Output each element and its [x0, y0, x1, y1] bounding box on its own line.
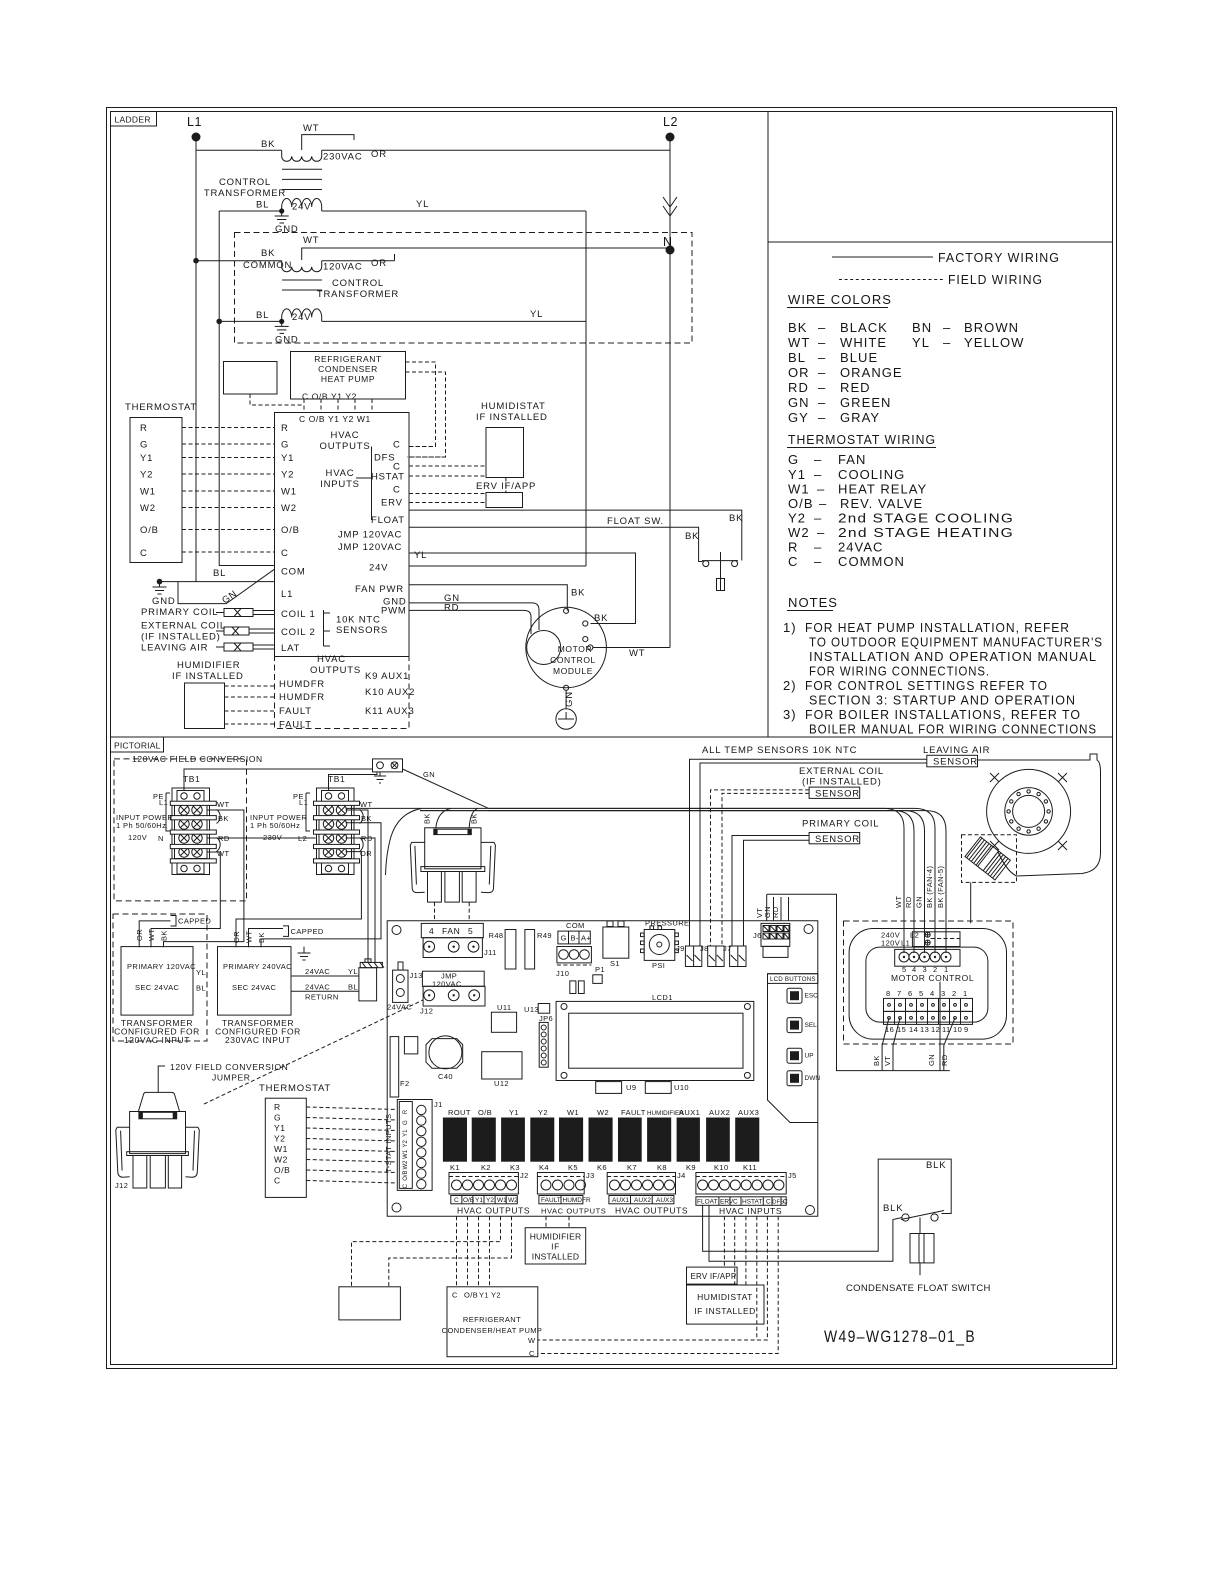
svg-text:Y2: Y2 — [274, 1134, 286, 1144]
svg-text:K7: K7 — [627, 1163, 637, 1172]
svg-text:EXTERNAL COIL: EXTERNAL COIL — [141, 621, 226, 632]
svg-text:COMMON: COMMON — [243, 260, 292, 271]
svg-text:G: G — [403, 1120, 409, 1125]
svg-text:J4: J4 — [677, 1171, 686, 1180]
svg-text:W1: W1 — [567, 1108, 579, 1117]
svg-text:C: C — [529, 1349, 535, 1358]
svg-text:–: – — [818, 380, 826, 395]
svg-text:O/B: O/B — [403, 1170, 409, 1180]
svg-text:COIL 1: COIL 1 — [281, 609, 316, 620]
svg-text:WT: WT — [303, 235, 319, 246]
svg-text:–: – — [814, 540, 822, 555]
svg-text:EXTERNAL COIL: EXTERNAL COIL — [799, 766, 884, 777]
svg-text:R49: R49 — [537, 931, 552, 940]
svg-text:TRANSFORMER: TRANSFORMER — [204, 188, 286, 199]
svg-text:BK: BK — [423, 813, 432, 824]
svg-text:J5: J5 — [788, 1171, 797, 1180]
svg-text:Y1: Y1 — [509, 1108, 519, 1117]
svg-text:C40: C40 — [438, 1072, 453, 1081]
svg-text:R: R — [140, 423, 148, 434]
svg-text:G: G — [281, 440, 289, 451]
svg-text:COMMON: COMMON — [838, 554, 905, 569]
svg-text:TB1: TB1 — [328, 774, 345, 784]
svg-text:24VAC: 24VAC — [387, 1003, 412, 1012]
svg-text:CAPPED: CAPPED — [178, 917, 211, 926]
svg-text:BL: BL — [256, 310, 269, 321]
svg-text:5: 5 — [919, 989, 924, 998]
svg-text:WT: WT — [894, 896, 903, 908]
svg-text:HSTAT: HSTAT — [371, 472, 405, 483]
svg-text:(IF INSTALLED): (IF INSTALLED) — [802, 777, 882, 788]
svg-text:5: 5 — [468, 926, 473, 936]
svg-text:ERV IF/APP: ERV IF/APP — [691, 1272, 737, 1281]
svg-text:PRIMARY COIL: PRIMARY COIL — [802, 819, 879, 830]
svg-text:Y2: Y2 — [486, 1197, 494, 1204]
svg-text:R: R — [274, 1102, 281, 1112]
svg-text:FLOAT: FLOAT — [371, 515, 405, 526]
svg-text:G: G — [788, 452, 799, 467]
svg-text:YL: YL — [416, 199, 429, 210]
svg-text:R: R — [281, 423, 289, 434]
svg-text:FAULT: FAULT — [279, 720, 312, 731]
svg-text:–: – — [819, 496, 827, 511]
svg-text:J2: J2 — [520, 1171, 529, 1180]
svg-text:WT: WT — [303, 123, 319, 134]
svg-text:K6: K6 — [597, 1163, 607, 1172]
svg-text:U13: U13 — [524, 1005, 539, 1014]
svg-text:THERMOSTAT: THERMOSTAT — [125, 402, 197, 413]
svg-text:BK: BK — [872, 1055, 881, 1066]
svg-text:W1: W1 — [403, 1149, 409, 1159]
svg-text:O/B: O/B — [274, 1165, 290, 1175]
svg-text:HEAT RELAY: HEAT RELAY — [838, 482, 927, 497]
svg-text:4: 4 — [429, 926, 434, 936]
svg-text:K3: K3 — [510, 1163, 520, 1172]
svg-text:PICTORIAL: PICTORIAL — [114, 741, 161, 751]
svg-text:BK: BK — [571, 588, 585, 599]
svg-text:LCD1: LCD1 — [652, 993, 673, 1002]
svg-text:B-: B- — [571, 934, 579, 943]
svg-text:J13: J13 — [410, 971, 423, 980]
svg-text:PWM: PWM — [381, 606, 407, 617]
svg-text:BK (FAN-5): BK (FAN-5) — [936, 866, 945, 908]
svg-text:GN: GN — [564, 691, 575, 707]
svg-text:W2: W2 — [281, 503, 297, 514]
svg-text:W: W — [528, 1336, 536, 1345]
svg-text:2nd STAGE HEATING: 2nd STAGE HEATING — [838, 525, 1014, 540]
svg-text:HUMDFR: HUMDFR — [279, 679, 325, 690]
svg-text:10K NTC: 10K NTC — [336, 615, 381, 626]
svg-text:4: 4 — [930, 989, 935, 998]
svg-text:L2: L2 — [663, 115, 678, 129]
svg-text:YL: YL — [912, 335, 930, 350]
svg-text:FAN: FAN — [442, 926, 460, 936]
svg-text:24V: 24V — [292, 202, 311, 213]
svg-text:C: C — [403, 1183, 409, 1188]
svg-text:14: 14 — [909, 1025, 918, 1034]
svg-text:W49–WG1278–01_B: W49–WG1278–01_B — [824, 1328, 976, 1346]
svg-text:OR: OR — [788, 365, 810, 380]
svg-text:LEAVING AIR: LEAVING AIR — [923, 745, 990, 756]
svg-text:Y1: Y1 — [475, 1197, 483, 1204]
svg-text:IF INSTALLED: IF INSTALLED — [694, 1306, 756, 1316]
svg-text:120VAC: 120VAC — [432, 980, 462, 989]
svg-text:REFRIGERANT: REFRIGERANT — [314, 354, 382, 364]
svg-text:THERMOSTAT: THERMOSTAT — [259, 1083, 331, 1094]
svg-text:HUMDFR: HUMDFR — [279, 692, 325, 703]
svg-text:O/B: O/B — [281, 525, 300, 536]
svg-text:BK: BK — [685, 531, 699, 542]
svg-text:L1: L1 — [159, 798, 168, 807]
svg-text:YL: YL — [530, 309, 543, 320]
svg-text:SENSORS: SENSORS — [336, 625, 388, 636]
svg-text:W2: W2 — [788, 525, 810, 540]
svg-text:–: – — [818, 335, 826, 350]
svg-text:HUMDFR: HUMDFR — [563, 1197, 591, 1204]
svg-text:CONTROL: CONTROL — [332, 278, 384, 289]
svg-text:C: C — [452, 1291, 458, 1300]
svg-text:WT: WT — [788, 335, 810, 350]
svg-text:G: G — [274, 1113, 281, 1123]
svg-text:2: 2 — [952, 989, 957, 998]
svg-text:3: 3 — [941, 989, 946, 998]
svg-text:JMP 120VAC: JMP 120VAC — [338, 542, 402, 553]
svg-text:CONTROL: CONTROL — [219, 177, 271, 188]
svg-text:ERV: ERV — [381, 498, 403, 509]
svg-text:GN: GN — [788, 395, 810, 410]
svg-text:K2: K2 — [481, 1163, 491, 1172]
svg-text:GRAY: GRAY — [840, 410, 880, 425]
svg-text:120V: 120V — [881, 939, 900, 948]
svg-text:CONDENSATE FLOAT SWITCH: CONDENSATE FLOAT SWITCH — [846, 1283, 991, 1294]
svg-text:MOTOR CONTROL: MOTOR CONTROL — [891, 973, 974, 983]
svg-text:WIRE COLORS: WIRE COLORS — [788, 292, 892, 307]
svg-text:J11: J11 — [484, 948, 497, 957]
svg-text:O/B: O/B — [478, 1108, 492, 1117]
svg-text:FOR HEAT PUMP INSTALLATION, RE: FOR HEAT PUMP INSTALLATION, REFER — [805, 620, 1070, 635]
svg-text:JMP 120VAC: JMP 120VAC — [338, 530, 402, 541]
svg-text:J6: J6 — [753, 931, 762, 940]
svg-text:6: 6 — [908, 989, 913, 998]
svg-text:BL: BL — [256, 200, 269, 211]
svg-text:FACTORY WIRING: FACTORY WIRING — [938, 250, 1060, 265]
svg-text:GN: GN — [927, 1054, 936, 1066]
svg-text:VT: VT — [883, 1056, 892, 1066]
svg-text:COM: COM — [281, 567, 306, 578]
svg-text:Y2: Y2 — [403, 1139, 409, 1147]
svg-text:BK: BK — [729, 513, 743, 524]
svg-text:–: – — [818, 410, 826, 425]
svg-text:WT: WT — [217, 849, 229, 858]
svg-text:BLUE: BLUE — [840, 350, 878, 365]
svg-text:SEC 24VAC: SEC 24VAC — [232, 983, 276, 992]
svg-text:W2: W2 — [403, 1160, 409, 1170]
svg-text:HUMIDIFIER: HUMIDIFIER — [530, 1232, 582, 1242]
svg-text:Y2: Y2 — [140, 470, 153, 481]
svg-text:C: C — [783, 1199, 788, 1206]
svg-text:Y2: Y2 — [491, 1291, 501, 1300]
svg-text:–: – — [818, 320, 826, 335]
svg-text:BK: BK — [261, 248, 275, 259]
svg-text:10: 10 — [953, 1025, 962, 1034]
svg-text:PRIMARY COIL: PRIMARY COIL — [141, 607, 218, 618]
svg-text:TRANSFORMER: TRANSFORMER — [317, 289, 399, 300]
svg-text:FAN: FAN — [838, 452, 866, 467]
svg-text:SEC 24VAC: SEC 24VAC — [135, 983, 179, 992]
svg-text:13: 13 — [920, 1025, 929, 1034]
svg-text:SENSOR: SENSOR — [815, 789, 860, 800]
svg-text:AUX2: AUX2 — [709, 1108, 730, 1117]
svg-text:ESC: ESC — [805, 993, 819, 1000]
svg-text:CONTROL: CONTROL — [550, 655, 596, 665]
svg-text:PRIMARY 120VAC: PRIMARY 120VAC — [127, 962, 196, 971]
svg-text:COOLING: COOLING — [838, 467, 905, 482]
svg-text:–: – — [814, 511, 822, 526]
svg-text:COIL 2: COIL 2 — [281, 627, 316, 638]
svg-text:HVAC INPUTS: HVAC INPUTS — [719, 1206, 782, 1216]
svg-text:W1: W1 — [274, 1144, 288, 1154]
svg-text:BLACK: BLACK — [840, 320, 888, 335]
svg-text:UP: UP — [805, 1053, 814, 1060]
svg-text:FAULT: FAULT — [279, 706, 312, 717]
svg-text:AUX3: AUX3 — [738, 1108, 759, 1117]
svg-text:BL: BL — [196, 984, 206, 993]
svg-text:Y2: Y2 — [281, 470, 294, 481]
svg-text:CONDENSER/HEAT PUMP: CONDENSER/HEAT PUMP — [442, 1326, 543, 1335]
svg-text:REV. VALVE: REV. VALVE — [840, 496, 923, 511]
svg-text:Y1: Y1 — [788, 467, 806, 482]
svg-text:12: 12 — [931, 1025, 940, 1034]
svg-text:W2: W2 — [597, 1108, 609, 1117]
svg-text:PSI: PSI — [652, 961, 665, 970]
svg-text:HVAC: HVAC — [317, 654, 346, 665]
svg-text:120VAC: 120VAC — [323, 262, 362, 273]
svg-text:RD: RD — [444, 603, 459, 614]
svg-text:BLK: BLK — [883, 1203, 903, 1214]
svg-text:7: 7 — [897, 989, 902, 998]
svg-text:8: 8 — [886, 989, 891, 998]
svg-text:WT: WT — [217, 800, 229, 809]
svg-text:GY: GY — [788, 410, 809, 425]
svg-text:Y1: Y1 — [274, 1123, 286, 1133]
svg-text:1): 1) — [783, 620, 797, 635]
svg-text:R: R — [403, 1109, 409, 1114]
svg-text:R: R — [788, 540, 798, 555]
svg-text:SEL: SEL — [805, 1022, 818, 1029]
svg-text:A+: A+ — [581, 934, 591, 943]
svg-text:U12: U12 — [494, 1079, 509, 1088]
svg-text:BL: BL — [213, 568, 226, 579]
svg-text:ERV: ERV — [720, 1199, 734, 1206]
svg-text:W1: W1 — [497, 1197, 507, 1204]
svg-text:J10: J10 — [556, 969, 569, 978]
svg-text:C O/B Y1 Y2: C O/B Y1 Y2 — [302, 392, 357, 402]
svg-text:IF: IF — [551, 1242, 560, 1252]
svg-text:K5: K5 — [568, 1163, 578, 1172]
svg-text:YL: YL — [196, 968, 206, 977]
svg-text:C: C — [788, 554, 798, 569]
svg-text:O/B: O/B — [788, 496, 814, 511]
svg-text:INSTALLED: INSTALLED — [532, 1252, 579, 1262]
svg-text:FIELD WIRING: FIELD WIRING — [948, 272, 1043, 287]
svg-text:COM: COM — [566, 921, 585, 930]
svg-text:L1: L1 — [281, 589, 293, 600]
svg-text:HEAT PUMP: HEAT PUMP — [321, 374, 375, 384]
svg-text:BK: BK — [788, 320, 807, 335]
svg-text:JP6: JP6 — [539, 1014, 553, 1023]
svg-text:RD: RD — [904, 896, 913, 908]
svg-text:K8: K8 — [657, 1163, 667, 1172]
svg-text:J1: J1 — [434, 1100, 443, 1109]
svg-text:BK: BK — [594, 613, 608, 624]
svg-text:HUMIDIFIER: HUMIDIFIER — [177, 660, 240, 671]
svg-text:W1: W1 — [281, 487, 297, 498]
svg-text:N: N — [158, 834, 164, 843]
svg-text:RETURN: RETURN — [305, 993, 339, 1002]
svg-text:L1: L1 — [901, 939, 910, 948]
svg-text:DWN: DWN — [805, 1075, 821, 1082]
svg-text:IF INSTALLED: IF INSTALLED — [476, 412, 548, 423]
svg-text:Y1: Y1 — [281, 453, 294, 464]
svg-text:BROWN: BROWN — [964, 320, 1019, 335]
svg-text:–: – — [818, 350, 826, 365]
svg-text:–: – — [814, 467, 822, 482]
svg-text:P1: P1 — [595, 965, 605, 974]
svg-text:RD: RD — [940, 1054, 949, 1066]
svg-text:GND: GND — [275, 224, 299, 235]
svg-text:FOR WIRING CONNECTIONS.: FOR WIRING CONNECTIONS. — [809, 664, 990, 679]
svg-text:SENSOR: SENSOR — [815, 834, 860, 845]
svg-text:FOR CONTROL SETTINGS REFER TO: FOR CONTROL SETTINGS REFER TO — [805, 678, 1048, 693]
svg-text:230VAC INPUT: 230VAC INPUT — [225, 1035, 291, 1045]
svg-text:(IF INSTALLED): (IF INSTALLED) — [141, 632, 221, 643]
svg-text:FLOAT: FLOAT — [697, 1199, 717, 1206]
svg-text:LAT: LAT — [281, 643, 300, 654]
svg-text:HSTAT: HSTAT — [742, 1199, 762, 1206]
svg-text:THERMOSTAT WIRING: THERMOSTAT WIRING — [788, 432, 936, 447]
svg-text:–: – — [818, 365, 826, 380]
svg-text:YELLOW: YELLOW — [964, 335, 1024, 350]
svg-text:OUTPUTS: OUTPUTS — [310, 665, 361, 676]
svg-text:J9: J9 — [676, 944, 685, 953]
svg-text:L1: L1 — [187, 115, 202, 129]
svg-text:BK: BK — [160, 930, 169, 941]
svg-text:OUTPUTS: OUTPUTS — [320, 441, 371, 452]
svg-text:ORANGE: ORANGE — [840, 365, 903, 380]
svg-text:HVAC OUTPUTS: HVAC OUTPUTS — [615, 1206, 688, 1216]
svg-text:K11: K11 — [743, 1163, 757, 1172]
svg-text:ROUT: ROUT — [448, 1108, 471, 1117]
svg-text:C: C — [274, 1176, 281, 1186]
svg-text:LEAVING AIR: LEAVING AIR — [141, 643, 208, 654]
svg-text:FAULT: FAULT — [541, 1197, 561, 1204]
svg-text:Y1: Y1 — [479, 1291, 489, 1300]
svg-text:HUMIDISTAT: HUMIDISTAT — [481, 401, 546, 412]
svg-text:BK: BK — [261, 139, 275, 150]
svg-text:C: C — [733, 1199, 738, 1206]
svg-text:HVAC OUTPUTS: HVAC OUTPUTS — [541, 1207, 606, 1216]
svg-text:F2: F2 — [400, 1079, 410, 1088]
svg-text:–: – — [943, 335, 951, 350]
svg-text:T-STAT INPUTS: T-STAT INPUTS — [384, 1114, 393, 1173]
svg-text:JUMPER: JUMPER — [212, 1073, 251, 1083]
svg-text:AUX2: AUX2 — [634, 1197, 651, 1204]
svg-text:MODULE: MODULE — [553, 666, 593, 676]
svg-text:INPUTS: INPUTS — [320, 479, 360, 490]
svg-text:120VAC INPUT: 120VAC INPUT — [124, 1035, 190, 1045]
svg-text:Y1: Y1 — [403, 1129, 409, 1137]
svg-text:AUX1: AUX1 — [679, 1108, 700, 1117]
svg-text:CONDENSER: CONDENSER — [318, 364, 378, 374]
svg-text:C: C — [140, 548, 148, 559]
svg-text:O/B: O/B — [464, 1291, 478, 1300]
svg-text:FAN PWR: FAN PWR — [355, 584, 404, 595]
svg-text:AUX1: AUX1 — [612, 1197, 629, 1204]
svg-text:YL: YL — [348, 967, 358, 976]
svg-text:O/B: O/B — [140, 525, 159, 536]
svg-text:FLOAT SW.: FLOAT SW. — [607, 516, 664, 527]
svg-text:FAULT: FAULT — [621, 1108, 646, 1117]
svg-text:LADDER: LADDER — [115, 115, 151, 125]
svg-text:3): 3) — [783, 707, 797, 722]
svg-text:K9: K9 — [686, 1163, 696, 1172]
svg-text:C: C — [766, 1199, 771, 1206]
svg-text:K10: K10 — [714, 1163, 729, 1172]
svg-text:W2: W2 — [274, 1155, 288, 1165]
svg-text:230VAC: 230VAC — [323, 152, 362, 163]
svg-text:C: C — [454, 1197, 459, 1204]
svg-text:LCD BUTTONS: LCD BUTTONS — [770, 976, 816, 983]
svg-text:2nd STAGE COOLING: 2nd STAGE COOLING — [838, 511, 1014, 526]
svg-text:L1: L1 — [299, 798, 308, 807]
svg-text:–: – — [817, 525, 825, 540]
svg-text:J12: J12 — [115, 1181, 128, 1190]
svg-text:–: – — [814, 554, 822, 569]
svg-text:GN: GN — [423, 770, 435, 779]
svg-text:J12: J12 — [420, 1007, 433, 1016]
svg-text:IF INSTALLED: IF INSTALLED — [172, 671, 244, 682]
svg-text:24VAC: 24VAC — [305, 967, 330, 976]
svg-text:YL: YL — [414, 550, 427, 561]
svg-text:K11 AUX3: K11 AUX3 — [365, 706, 415, 717]
svg-text:–: – — [817, 482, 825, 497]
svg-text:S1: S1 — [610, 959, 620, 968]
svg-text:REFRIGERANT: REFRIGERANT — [463, 1315, 521, 1324]
svg-text:U11: U11 — [497, 1003, 511, 1012]
svg-text:GREEN: GREEN — [840, 395, 891, 410]
svg-text:O/B: O/B — [463, 1197, 474, 1204]
svg-text:C: C — [281, 548, 289, 559]
svg-text:24V: 24V — [369, 563, 388, 574]
svg-text:OR: OR — [371, 258, 387, 269]
svg-text:SECTION 3: STARTUP AND OPERATI: SECTION 3: STARTUP AND OPERATION — [809, 693, 1076, 708]
svg-text:–: – — [943, 320, 951, 335]
svg-text:–: – — [814, 452, 822, 467]
svg-text:HUMIDISTAT: HUMIDISTAT — [697, 1292, 753, 1302]
svg-text:Y1: Y1 — [140, 453, 153, 464]
svg-text:WHITE: WHITE — [840, 335, 887, 350]
svg-text:120V: 120V — [128, 833, 147, 842]
svg-text:C O/B Y1 Y2 W1: C O/B Y1 Y2 W1 — [299, 414, 371, 424]
svg-text:RED: RED — [840, 380, 871, 395]
svg-text:120V FIELD CONVERSION: 120V FIELD CONVERSION — [170, 1062, 288, 1072]
svg-text:WT: WT — [147, 929, 156, 941]
svg-text:PRIMARY 240VAC: PRIMARY 240VAC — [223, 962, 292, 971]
svg-text:FOR BOILER INSTALLATIONS, REFE: FOR BOILER INSTALLATIONS, REFER TO — [805, 707, 1081, 722]
svg-text:C: C — [393, 440, 401, 451]
svg-text:AUX3: AUX3 — [656, 1197, 673, 1204]
svg-text:TO OUTDOOR EQUIPMENT MANUFACTU: TO OUTDOOR EQUIPMENT MANUFACTURER'S — [809, 635, 1103, 650]
